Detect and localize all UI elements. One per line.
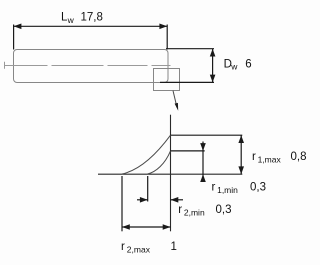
label r1,min 0,3: [212, 182, 267, 196]
Dw bottom extension line: [160, 81, 214, 83]
svg-text:r: r: [252, 151, 256, 163]
label Lw 17,8: [61, 11, 103, 25]
svg-text:2,min: 2,min: [184, 208, 205, 218]
svg-text:r: r: [212, 182, 216, 194]
Dw dimension line: [212, 49, 214, 83]
detail: r max corner curve: [122, 135, 171, 174]
svg-text:0,3: 0,3: [216, 204, 232, 216]
Dw bottom arrowhead: [210, 75, 216, 83]
leader line from detail box: [173, 91, 177, 108]
roller body (cylinder outline): [14, 50, 169, 83]
r1max top reference line: [171, 134, 243, 136]
leader arrowhead: [175, 103, 179, 111]
detail: bottom face line: [98, 173, 242, 175]
svg-text:0,3: 0,3: [250, 182, 266, 194]
r2,min right arrowhead (pointing left): [171, 197, 179, 203]
label r2,max 1: [121, 241, 177, 255]
r1,max bottom arrowhead: [238, 166, 244, 174]
svg-text:1,max: 1,max: [258, 155, 282, 165]
r1,max dimension line: [240, 135, 242, 174]
label Dw 6: [224, 58, 252, 71]
r2,min left arrowhead (pointing right): [140, 197, 148, 203]
r1,min dimension line: [202, 142, 204, 182]
Dw top extension line: [166, 48, 214, 50]
r1min reference line: [171, 150, 205, 152]
r1,min upper arrowhead (outside, pointing down): [200, 143, 206, 151]
detail: r min corner curve: [148, 151, 171, 174]
detail zoom box: [154, 69, 180, 91]
label r2,min 0,3: [178, 204, 231, 218]
label r1,max 0,8: [252, 151, 307, 165]
centerline: [5, 65, 171, 67]
Lw left extension line: [13, 25, 15, 50]
r2,max left arrowhead: [122, 224, 130, 230]
r2 outer extension line: [121, 176, 123, 231]
svg-text:2,max: 2,max: [127, 245, 151, 255]
svg-text:r: r: [121, 241, 125, 253]
detail: vertical end face: [170, 115, 172, 232]
Lw left arrowhead: [14, 24, 22, 30]
r2,min dimension left tail: [137, 199, 148, 201]
Lw dimension line: [14, 25, 168, 27]
svg-text:17,8: 17,8: [81, 11, 103, 23]
svg-text:w: w: [67, 15, 75, 25]
r1,min lower arrowhead (outside, pointing up): [200, 174, 206, 182]
svg-text:0,8: 0,8: [291, 151, 307, 163]
r2 inner extension line: [147, 176, 149, 202]
svg-text:1: 1: [171, 241, 177, 253]
svg-text:1,min: 1,min: [217, 185, 238, 195]
r2,max right arrowhead: [163, 224, 171, 230]
svg-text:r: r: [178, 204, 182, 216]
centerline tick: [4, 62, 6, 69]
svg-text:6: 6: [245, 58, 251, 70]
Lw right extension line: [166, 25, 168, 50]
svg-text:w: w: [230, 62, 238, 72]
r2,min dimension right tail: [171, 199, 184, 201]
Dw top arrowhead: [210, 49, 216, 57]
r1,max top arrowhead: [238, 135, 244, 143]
r2,max dimension line: [122, 226, 171, 228]
Lw right arrowhead: [159, 24, 167, 30]
